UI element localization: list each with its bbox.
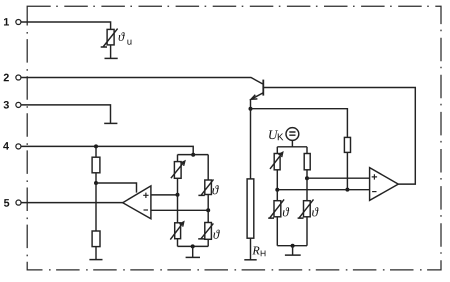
resistor R3 <box>344 137 350 189</box>
label theta TH4 <box>312 207 318 216</box>
resistor R4 <box>304 147 310 178</box>
wire <box>306 178 308 201</box>
terminal 3 <box>4 101 21 109</box>
terminal 5 <box>4 199 21 207</box>
wire N1 noninverting input <box>151 194 178 196</box>
node left bridge bottom <box>191 244 195 248</box>
wire terminal 5 to op-amp N1 output <box>21 202 123 204</box>
terminal 2 <box>4 74 21 82</box>
label U_K <box>269 130 283 140</box>
voltage source U_K <box>286 128 299 147</box>
trimmer P3 <box>270 147 283 190</box>
wire thermistor to ground <box>110 45 112 58</box>
ground <box>105 57 118 59</box>
ground <box>104 122 117 124</box>
label theta TH1 <box>212 185 218 194</box>
op-amp N1 <box>123 186 151 219</box>
node R3 to N2 inverting input <box>345 188 349 192</box>
resistor R1 <box>92 146 100 183</box>
node left bridge top <box>191 153 195 157</box>
label RH <box>252 247 265 257</box>
trimmer P2 <box>170 222 183 247</box>
ground <box>285 254 301 256</box>
terminal 4 <box>3 142 21 149</box>
node R1 top <box>94 144 98 148</box>
wire right bridge left mid to N2 inverting input <box>277 189 369 191</box>
ground <box>89 259 102 261</box>
node divider tap <box>94 181 98 185</box>
label theta_u <box>119 32 132 45</box>
resistor R2 <box>92 183 100 259</box>
thermistor TH4 <box>298 199 314 245</box>
ground <box>186 256 200 258</box>
node left bridge left mid <box>176 193 180 197</box>
wire left bridge left mid <box>177 195 179 223</box>
right bridge bottom bar <box>277 245 307 247</box>
wire emitter rail to R3 <box>251 109 348 138</box>
ground <box>244 259 256 261</box>
wire terminal 3 to ground <box>21 105 110 123</box>
wire <box>276 190 278 201</box>
trimmer P1 <box>171 155 185 195</box>
wire terminal 1 to thermistor <box>21 22 110 29</box>
wire right bridge right mid to N2 noninverting input <box>307 177 370 179</box>
label theta TH3 <box>283 207 289 216</box>
wire left bridge right branch top <box>207 155 209 180</box>
wire divider tap to op-amp N1 <box>96 183 137 193</box>
thermistor TH_u <box>101 29 118 47</box>
wire terminal 2 to base of Q1 <box>21 78 262 84</box>
node right bridge bottom <box>291 244 295 248</box>
node emitter junction <box>249 107 253 111</box>
right bridge top bar <box>277 146 307 148</box>
thermistor TH2 <box>198 223 213 247</box>
transistor Q1 <box>251 80 264 109</box>
label theta TH2 <box>213 230 219 239</box>
left bridge top bar <box>178 154 209 156</box>
node right bridge right mid <box>305 176 309 180</box>
terminal 1 <box>4 18 21 25</box>
thermistor TH1 <box>198 179 213 210</box>
left bridge bottom bar <box>178 245 209 247</box>
wire N1 inverting input <box>151 209 208 211</box>
thermistor TH3 <box>268 199 284 245</box>
op-amp N2 <box>370 168 399 201</box>
wire collector of Q1 to op-amp N2 output <box>263 88 415 185</box>
node left bridge right mid <box>206 208 210 212</box>
wire terminal 4 supply rail <box>21 146 193 154</box>
wire right bridge to ground <box>292 246 294 255</box>
resistor RH <box>247 109 254 260</box>
node right bridge left mid <box>275 188 279 192</box>
wire left bridge to ground <box>192 246 194 257</box>
wire left bridge right mid <box>207 210 209 222</box>
